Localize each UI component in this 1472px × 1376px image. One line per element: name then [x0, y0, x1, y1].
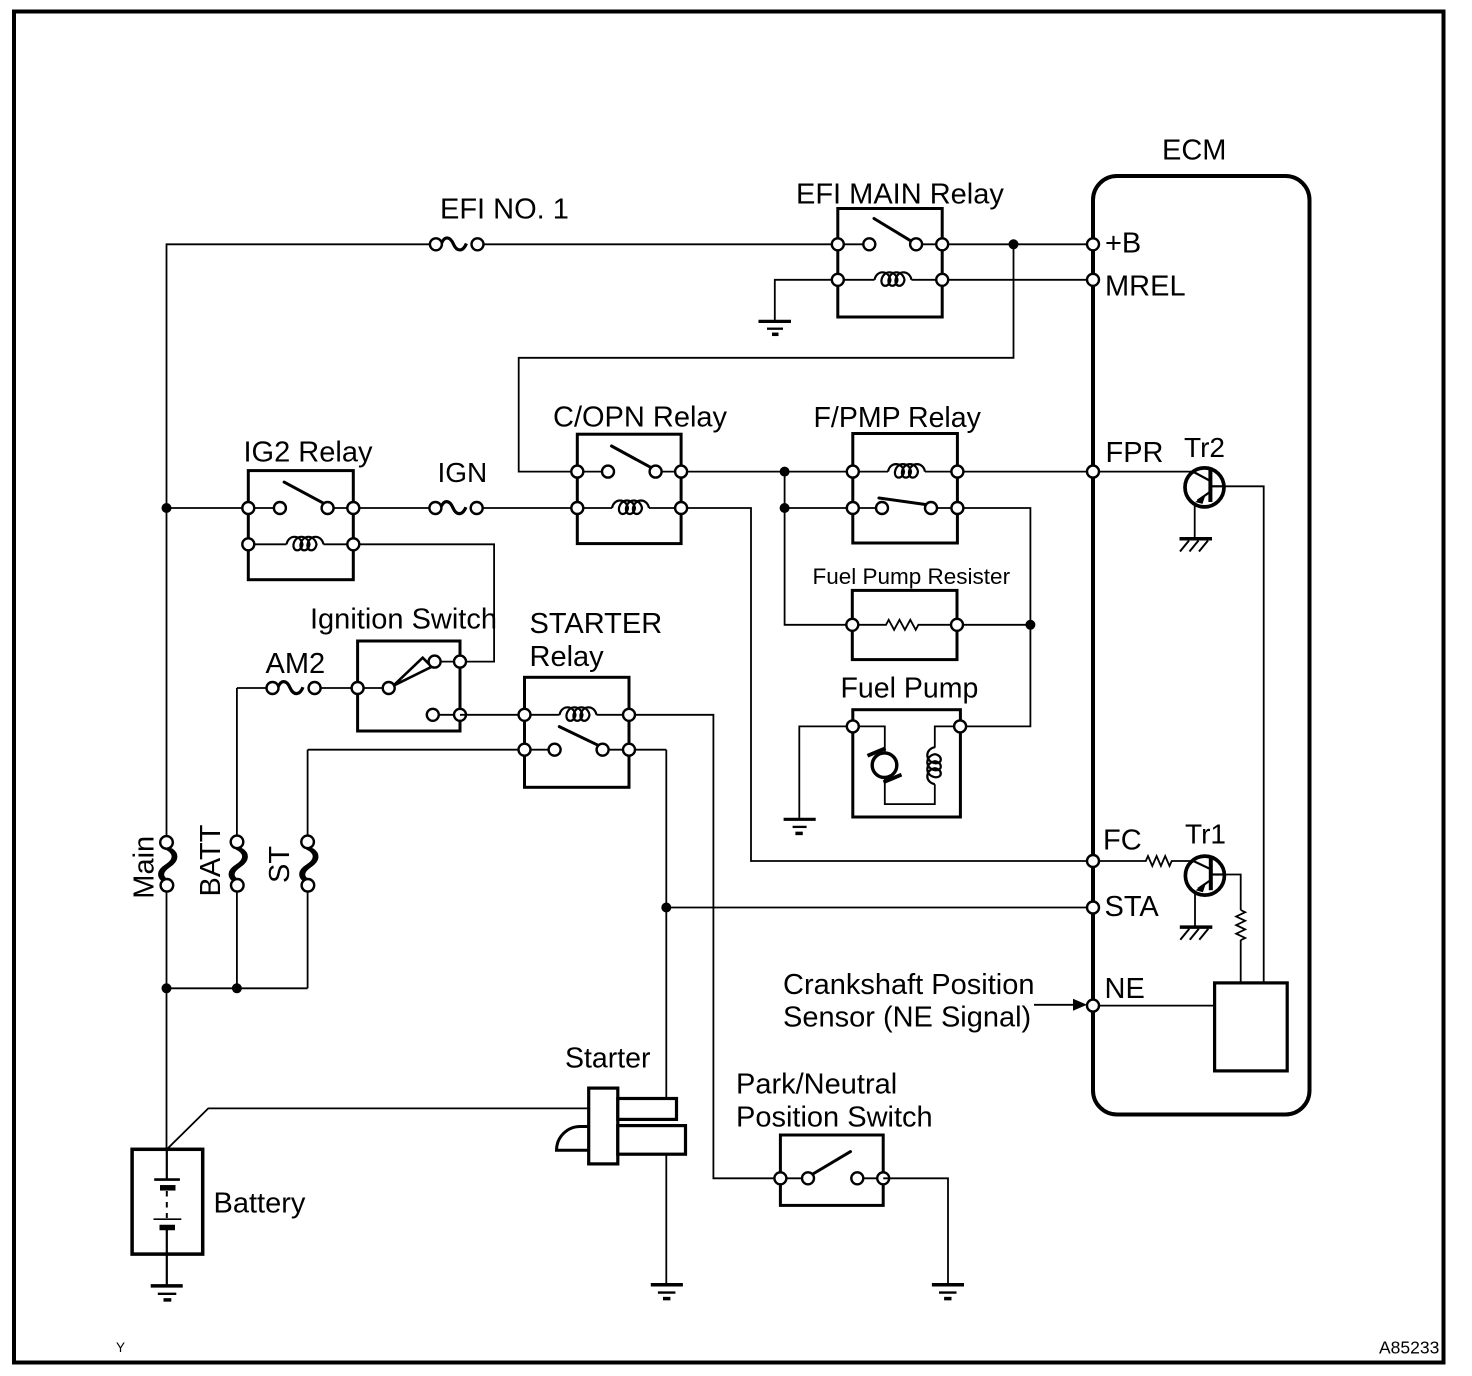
ECM pin +B [1087, 238, 1099, 250]
battery: internal plates [154, 1149, 182, 1284]
svg-text:Battery: Battery [214, 1188, 306, 1220]
wire: ignition switch ST out to starter relay coil [460, 714, 525, 716]
ignition switch: box [358, 641, 460, 731]
relay EFI MAIN: coil [875, 272, 912, 286]
wire: resistor out to fuel pump feed [957, 624, 1030, 626]
svg-text:Starter: Starter [565, 1043, 651, 1075]
svg-text:Main: Main [129, 836, 161, 899]
fuse IGN [429, 502, 482, 514]
svg-text:A85233: A85233 [1379, 1338, 1439, 1358]
relay EFI MAIN: switch contacts [863, 238, 875, 250]
fuel pump resister: pin circles [846, 619, 858, 631]
svg-text:EFI MAIN Relay: EFI MAIN Relay [796, 179, 1004, 211]
node: main rail / IG2 junction [162, 503, 172, 513]
fuse AM2 wiring [237, 688, 358, 836]
wire: Tr1 collector through resistor to NE block [1224, 875, 1240, 911]
node: F/PMP coil feed junction [780, 467, 790, 477]
fuel pump: pin circles [847, 720, 859, 732]
relay F/PMP: switch blade [879, 498, 926, 505]
wire: C/OPN switch out to F/PMP coil [681, 471, 853, 473]
node: STA junction on starter line [661, 903, 671, 913]
relay IG2: box [248, 471, 353, 580]
wire: fuel pump to ground [799, 726, 853, 818]
wire: IGN row, IG2 switch out to C/OPN coil [353, 507, 577, 509]
wire: links down to battery node [167, 892, 308, 1150]
wire: +B node down to C/OPN relay feed [519, 244, 1014, 471]
ground: EFI MAIN relay coil [759, 321, 792, 334]
node: Main/BATT junction [162, 983, 172, 993]
wire: starter relay switch out down to starter [629, 750, 666, 1284]
wire: F/PMP coil out to FPR pin and Tr2 [957, 471, 1193, 473]
wire: IG2 coil to ignition switch IG contact [353, 544, 494, 661]
ground: Tr1 (hatched) [1180, 927, 1213, 940]
starter: solenoid body [589, 1088, 618, 1164]
fuel pump: coil [927, 747, 941, 784]
svg-text:Park/Neutral: Park/Neutral [736, 1069, 897, 1101]
relay STARTER: box [525, 677, 630, 787]
wire: starter relay coil out to park/neutral switch [629, 715, 774, 1179]
relay C/OPN: switch blade [612, 446, 652, 468]
wire: STA row from starter line to ECM [666, 907, 1087, 909]
wire: MREL pin to relay coil [942, 279, 1087, 281]
park/neutral position switch: contacts [802, 1172, 814, 1184]
svg-text:FC: FC [1103, 825, 1142, 857]
ECM pin FC [1087, 855, 1099, 867]
svg-text:Tr1: Tr1 [1185, 819, 1226, 850]
relay STARTER: pin circles [519, 709, 531, 721]
relay STARTER: internal row links [525, 715, 630, 750]
ECM box [1093, 176, 1310, 1115]
svg-text:Tr2: Tr2 [1184, 432, 1225, 463]
svg-text:ST: ST [264, 846, 296, 883]
relay F/PMP: pin circles [847, 466, 859, 478]
transistor Tr1 [1185, 856, 1225, 895]
relay F/PMP: box [853, 434, 958, 544]
ground: park/neutral switch [932, 1285, 964, 1299]
relay C/OPN: switch contacts [602, 466, 614, 478]
svg-text:IGN: IGN [438, 457, 488, 488]
ignition switch: contact circles [383, 682, 395, 694]
fuel pump: internal wiring [853, 726, 960, 804]
resistor inside fuel pump resister [858, 620, 951, 630]
relay EFI MAIN: box [838, 209, 942, 318]
starter: nose arc [557, 1127, 589, 1151]
relay STARTER: switch contacts [549, 744, 561, 756]
svg-text:C/OPN Relay: C/OPN Relay [553, 402, 728, 434]
starter: upper housing [618, 1099, 677, 1120]
relay STARTER: coil (top row) [560, 707, 597, 721]
relay EFI MAIN: left pin circles [832, 238, 844, 250]
wire: F/PMP switch out down to fuel pump [957, 508, 1030, 726]
ECM pin FPR [1087, 466, 1099, 478]
wire: battery to starter (diagonal) [167, 1108, 589, 1149]
ECM pin NE [1087, 1000, 1099, 1012]
wire: Tr2 collector to NE block [1224, 486, 1264, 983]
wire: battery positive rail (main vertical + top feed to EFI MAIN relay) [167, 244, 838, 836]
battery: box [132, 1149, 203, 1254]
svg-text:F/PMP Relay: F/PMP Relay [814, 402, 982, 434]
relay EFI MAIN: switch blade [874, 219, 912, 242]
ground: starter [651, 1285, 683, 1299]
relay IG2: coil [287, 537, 324, 551]
wire: Tr2 emitter to ground [1194, 504, 1196, 538]
svg-text:FPR: FPR [1106, 437, 1164, 469]
node: F/PMP switch feed junction [780, 503, 790, 513]
fusible link Main [160, 836, 176, 891]
svg-text:BATT: BATT [195, 824, 227, 896]
park/neutral position switch: box [780, 1135, 883, 1205]
relay F/PMP: coil (top row) [888, 464, 925, 478]
svg-text:MREL: MREL [1105, 270, 1186, 302]
svg-text:IG2 Relay: IG2 Relay [244, 437, 373, 469]
relay IG2: feed wire from main rail [167, 507, 249, 509]
svg-text:NE: NE [1105, 973, 1145, 1005]
resistor: Tr1 collector (vertical) [1236, 910, 1245, 940]
wire: relay output to +B pin [942, 243, 1087, 245]
wire: C/OPN coil out to FC pin [681, 508, 1087, 861]
svg-text:Fuel Pump: Fuel Pump [841, 673, 979, 705]
fuel pump: box [853, 710, 961, 817]
ignition switch: rotor wedge [393, 658, 432, 686]
relay EFI MAIN: internal row links [838, 244, 942, 279]
ground: fuel pump [784, 819, 816, 833]
ignition switch: IG contact link [358, 662, 460, 715]
wire: ST fuse row to starter relay switch [308, 750, 525, 836]
ground: battery [151, 1286, 183, 1300]
ECM pin STA [1087, 902, 1099, 914]
fuse AM2 [267, 682, 321, 694]
svg-text:Position Switch: Position Switch [736, 1102, 933, 1134]
wire: NE pin to sensor block [1093, 1005, 1215, 1007]
svg-text:+B: +B [1105, 228, 1141, 260]
svg-text:Sensor (NE Signal): Sensor (NE Signal) [783, 1002, 1031, 1034]
relay STARTER: switch blade [559, 727, 598, 746]
park/neutral position switch: blade [812, 1152, 851, 1175]
starter: lower housing [618, 1126, 686, 1155]
park/neutral position switch: internal row links [780, 1177, 883, 1179]
fuel pump resister: box [852, 590, 957, 659]
svg-text:Y: Y [116, 1340, 125, 1355]
relay C/OPN: internal row links [577, 472, 681, 508]
svg-text:Fuel Pump Resister: Fuel Pump Resister [813, 564, 1011, 589]
wire: park/neutral switch to ground [883, 1178, 948, 1284]
NE sensor block [1215, 983, 1288, 1071]
svg-text:ECM: ECM [1162, 135, 1226, 167]
transistor Tr2 [1185, 468, 1225, 507]
relay C/OPN: box [577, 434, 681, 543]
svg-text:EFI NO. 1: EFI NO. 1 [440, 193, 569, 225]
relay F/PMP: internal row links [853, 472, 958, 508]
fusible link BATT [231, 836, 247, 892]
relay C/OPN: coil [612, 501, 649, 515]
svg-text:Ignition Switch: Ignition Switch [310, 604, 497, 636]
relay IG2: switch contacts [274, 502, 286, 514]
node: resistor/fuel-pump junction [1025, 620, 1035, 630]
node: BATT/ST junction [232, 983, 242, 993]
wire: resistor to NE block top [1240, 940, 1242, 983]
svg-text:STA: STA [1105, 891, 1160, 923]
fuel pump: motor [868, 748, 902, 782]
arrow: crankshaft sensor signal to NE pin [1034, 999, 1087, 1011]
relay C/OPN: pin circles [571, 466, 583, 478]
relay IG2: switch blade [284, 482, 322, 503]
fuse EFI NO. 1 [430, 238, 484, 250]
node: +B junction [1009, 239, 1019, 249]
wire: EFI MAIN coil to ground [775, 280, 838, 320]
fusible link ST [301, 836, 317, 892]
ground: Tr2 (hatched) [1180, 539, 1213, 552]
relay IG2: pin circles [242, 502, 254, 514]
wire: Tr1 emitter to ground [1194, 892, 1196, 926]
svg-text:Crankshaft Position: Crankshaft Position [783, 969, 1034, 1001]
svg-text:Relay: Relay [530, 641, 605, 673]
park/neutral position switch: edge pins [774, 1172, 786, 1184]
svg-text:AM2: AM2 [266, 648, 326, 680]
svg-text:STARTER: STARTER [530, 608, 663, 640]
ignition switch: edge pin circles [352, 682, 364, 694]
relay IG2: internal row links [248, 508, 353, 544]
relay F/PMP: switch contacts [876, 502, 888, 514]
ECM pin MREL [1087, 274, 1099, 286]
resistor on FC line [1099, 856, 1193, 866]
wire: branch from C/OPN switch net down to resistor [785, 472, 853, 625]
